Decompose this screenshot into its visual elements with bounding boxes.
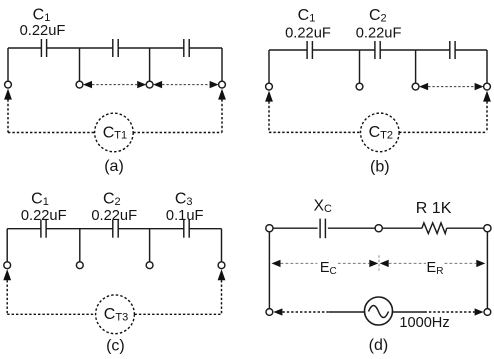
wire (a) dashed probe left — [7, 99, 9, 132]
meter CT3 — [96, 295, 135, 334]
wire (a) dashed bottom left — [8, 132, 95, 134]
meter CT1 — [95, 113, 134, 152]
capacitor C1 (b) — [307, 41, 312, 59]
wire (b) stub 3 — [415, 50, 417, 83]
wire (c) top rail seg3 — [118, 228, 184, 230]
svg-text:0.22uF: 0.22uF — [91, 208, 137, 224]
wire (c) stub 1 — [6, 229, 8, 262]
wire (c) top rail seg1 — [7, 228, 41, 230]
wire (a) dashed probe right — [221, 99, 223, 132]
probe arrow (d) bottom-right — [475, 308, 484, 315]
wire (a) top rail seg1 — [8, 47, 41, 49]
svg-text:0.1uF: 0.1uF — [166, 208, 204, 224]
wire (d) right vertical — [486, 232, 488, 309]
node (c) terminal 4 — [218, 262, 225, 269]
capacitor C1 (a) — [41, 39, 46, 57]
svg-text:C1: C1 — [31, 191, 49, 209]
wire (b) dashed bottom left — [269, 131, 361, 133]
wire (b) dashed probe right — [486, 101, 488, 132]
wire (c) stub 2 — [79, 229, 81, 262]
svg-text:0.22uF: 0.22uF — [356, 26, 402, 42]
probe arrow (b) left — [265, 91, 273, 102]
wire (c) dashed probe right — [221, 280, 223, 314]
node (b) terminal 4 — [484, 83, 491, 90]
capacitor C2 (b) — [375, 41, 380, 59]
meter CT2 — [361, 113, 400, 152]
wire (a) stub 2 — [79, 48, 81, 81]
node (a) terminal 3 — [146, 81, 153, 88]
wire (a) top rail seg4 — [189, 47, 222, 49]
wire (b) stub 1 — [268, 50, 270, 83]
svg-text:1000Hz: 1000Hz — [399, 315, 449, 331]
probe arrow (c) right — [218, 269, 226, 280]
svg-text:(a): (a) — [104, 158, 124, 175]
wire (a) top rail seg3 — [118, 47, 184, 49]
probe arrow (a) left — [4, 89, 12, 100]
capacitor XC — [320, 219, 325, 239]
wire (d) bottom solid right — [393, 311, 425, 313]
voltage arrow EC — [272, 260, 379, 267]
node (d) bottom-right terminal — [484, 309, 491, 316]
wire (d) bottom dashed left — [282, 311, 329, 313]
wire (b) stub 4 — [486, 50, 488, 83]
wire (d) top seg4 — [447, 227, 484, 229]
node (b) terminal 2 — [356, 83, 363, 90]
resistor R 1K — [422, 223, 447, 234]
svg-text:EC: EC — [320, 260, 337, 277]
capacitor C3 (c) — [184, 220, 189, 238]
wire (d) top seg2 — [328, 227, 375, 229]
svg-text:R 1K: R 1K — [416, 200, 452, 217]
capacitor C1 (c) — [41, 220, 46, 238]
node (a) terminal 4 — [219, 81, 226, 88]
wire (b) top rail seg4 — [455, 49, 487, 51]
wire (d) bottom dashed right — [425, 311, 475, 313]
svg-text:0.22uF: 0.22uF — [20, 23, 66, 39]
node (b) terminal 1 — [266, 83, 273, 90]
svg-text:C3: C3 — [175, 191, 193, 209]
svg-text:XC: XC — [314, 198, 332, 216]
wire (c) top rail seg4 — [189, 228, 221, 230]
wire (b) top rail seg1 — [269, 49, 307, 51]
node (b) terminal 3 — [412, 83, 419, 90]
wire (c) dashed bottom left — [7, 313, 95, 315]
measure arrows (a) between terminals 2-3 — [83, 81, 146, 88]
wire (d) top seg3 — [382, 227, 422, 229]
svg-text:C1: C1 — [298, 7, 316, 25]
node (c) terminal 2 — [76, 262, 83, 269]
wire (a) dashed bottom right — [133, 132, 222, 134]
probe arrow (b) right — [483, 91, 491, 102]
node (d) top-left terminal — [266, 225, 273, 232]
svg-text:0.22uF: 0.22uF — [21, 208, 67, 224]
wire (b) stub 2 — [359, 50, 361, 83]
wire (b) top rail seg3 — [380, 49, 449, 51]
node (c) terminal 3 — [146, 262, 153, 269]
node (d) top-right terminal — [484, 225, 491, 232]
wire (b) dashed bottom right — [399, 131, 487, 133]
svg-text:C2: C2 — [369, 7, 387, 25]
wire (d) bottom solid left — [329, 311, 365, 313]
svg-text:(d): (d) — [369, 337, 389, 354]
wire (c) dashed probe left — [6, 280, 8, 314]
wire (d) top seg1 — [273, 227, 318, 229]
node (d) bottom-left terminal — [266, 309, 273, 316]
svg-text:ER: ER — [427, 260, 444, 277]
probe arrow (a) right — [218, 89, 226, 100]
probe arrow (d) bottom-left — [273, 308, 282, 315]
node (d) top-middle terminal — [375, 225, 382, 232]
voltage arrow ER — [380, 260, 486, 267]
source 1000Hz sine generator — [365, 297, 393, 325]
svg-text:(b): (b) — [370, 159, 390, 176]
wire (c) top rail seg2 — [46, 228, 113, 230]
wire (a) stub 4 — [221, 48, 223, 81]
capacitor 3 (b) unlabeled — [450, 41, 455, 59]
tick divider EC/ER — [378, 255, 380, 270]
wire (b) dashed probe left — [268, 101, 270, 132]
svg-text:C2: C2 — [103, 191, 121, 209]
wire (c) stub 4 — [221, 229, 223, 262]
svg-text:(c): (c) — [106, 338, 125, 355]
capacitor 2 (a) unlabeled — [113, 39, 118, 57]
wire (a) stub 1 — [7, 48, 9, 81]
probe arrow (c) left — [3, 269, 11, 280]
wire (b) top rail seg2 — [312, 49, 375, 51]
node (c) terminal 1 — [4, 262, 11, 269]
wire (c) stub 3 — [149, 229, 151, 262]
capacitor C2 (c) — [113, 220, 118, 238]
svg-text:0.22uF: 0.22uF — [285, 26, 331, 42]
capacitor 3 (a) unlabeled — [184, 39, 189, 57]
measure arrows (a) between terminals 3-4 — [153, 81, 219, 88]
wire (a) top rail seg2 — [47, 47, 113, 49]
node (a) terminal 1 — [5, 81, 12, 88]
wire (a) stub 3 — [149, 48, 151, 81]
wire (d) left vertical — [268, 232, 270, 309]
measure arrows (b) between terminals 3-4 — [419, 83, 484, 90]
wire (c) dashed bottom right — [135, 313, 222, 315]
node (a) terminal 2 — [76, 81, 83, 88]
svg-text:C1: C1 — [33, 6, 51, 24]
